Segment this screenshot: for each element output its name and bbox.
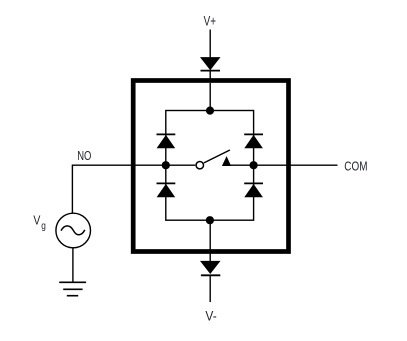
wire node D to COM terminal bbox=[254, 164, 338, 166]
svg-text:V: V bbox=[33, 212, 40, 227]
diode D2 upper-left bbox=[157, 134, 176, 148]
wire VG to ground bbox=[72, 248, 74, 282]
diode D5 lower-right bbox=[244, 183, 263, 197]
wire contact to node D bbox=[227, 164, 254, 166]
source VG generator circle bbox=[56, 213, 91, 248]
label Vg bbox=[33, 212, 45, 232]
wire box top to node A bbox=[209, 83, 211, 111]
node B bottom junction bbox=[206, 216, 214, 224]
svg-text:V+: V+ bbox=[204, 14, 217, 29]
switch package box bbox=[133, 81, 288, 252]
source VG sine wave bbox=[61, 226, 85, 235]
svg-text:NO: NO bbox=[77, 148, 91, 163]
node A top junction bbox=[206, 107, 214, 115]
node C left junction bbox=[162, 161, 170, 169]
diode D1 V+ clamp bbox=[200, 57, 221, 71]
wire node C to switch pole bbox=[166, 164, 196, 166]
svg-text:COM: COM bbox=[344, 158, 367, 173]
wire NO input to node C bbox=[72, 165, 165, 213]
wire node B to diode D6 bbox=[209, 220, 211, 261]
diode D3 lower-left bbox=[157, 183, 176, 197]
diode D4 upper-right bbox=[244, 134, 263, 148]
wire V+ to diode D1 bbox=[209, 30, 211, 59]
diode D6 V- clamp bbox=[200, 261, 221, 275]
svg-text:g: g bbox=[41, 221, 46, 232]
wire D6 to V- bbox=[209, 275, 211, 302]
switch S1 lever bbox=[204, 150, 230, 163]
node D right junction bbox=[250, 161, 258, 169]
svg-text:V-: V- bbox=[205, 309, 216, 324]
ground bbox=[59, 282, 86, 295]
inner diode bridge rectangle wire bbox=[166, 111, 254, 221]
switch S1 pole circle bbox=[196, 162, 203, 169]
switch S1 throw contact bbox=[222, 156, 231, 166]
wire D1 to box top bbox=[209, 71, 211, 82]
